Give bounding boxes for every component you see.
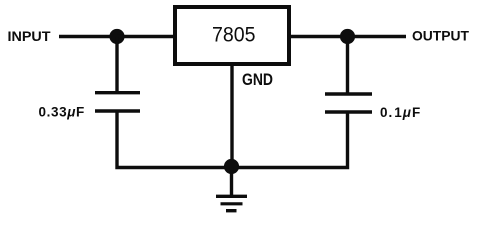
svg-text:0.1μF: 0.1μF (380, 105, 421, 120)
value label 0.1uF (380, 105, 421, 120)
op-amp U1 7805 regulator box (175, 7, 289, 64)
wire junction to output (348, 35, 407, 38)
wire output junction down to C2 (346, 37, 349, 93)
svg-text:GND: GND (242, 71, 273, 89)
node OUTPUT label (412, 29, 470, 44)
junction output node (340, 29, 355, 44)
node INPUT label (8, 29, 52, 44)
svg-text:7805: 7805 (212, 24, 256, 47)
wire input junction down to C1 (115, 37, 118, 92)
wire C1 to ground rail (117, 113, 232, 168)
wire C2 to ground rail (232, 114, 348, 168)
svg-text:INPUT: INPUT (8, 29, 52, 44)
capacitor C2 0.1uF (325, 94, 372, 112)
capacitor C1 0.33uF (95, 93, 140, 111)
wire input to junction (59, 35, 117, 38)
junction ground node (224, 159, 239, 174)
GND pin label (242, 71, 273, 89)
wire junction to ground symbol (230, 167, 233, 197)
ground (216, 196, 247, 210)
wire regulator output pin to junction (289, 35, 348, 38)
wire regulator GND pin down to ground junction (230, 64, 233, 167)
value label 0.33uF (39, 105, 85, 120)
svg-text:0.33μF: 0.33μF (39, 105, 85, 120)
junction input node (109, 29, 124, 44)
svg-text:OUTPUT: OUTPUT (412, 29, 470, 44)
wire junction to regulator input pin (117, 35, 175, 38)
